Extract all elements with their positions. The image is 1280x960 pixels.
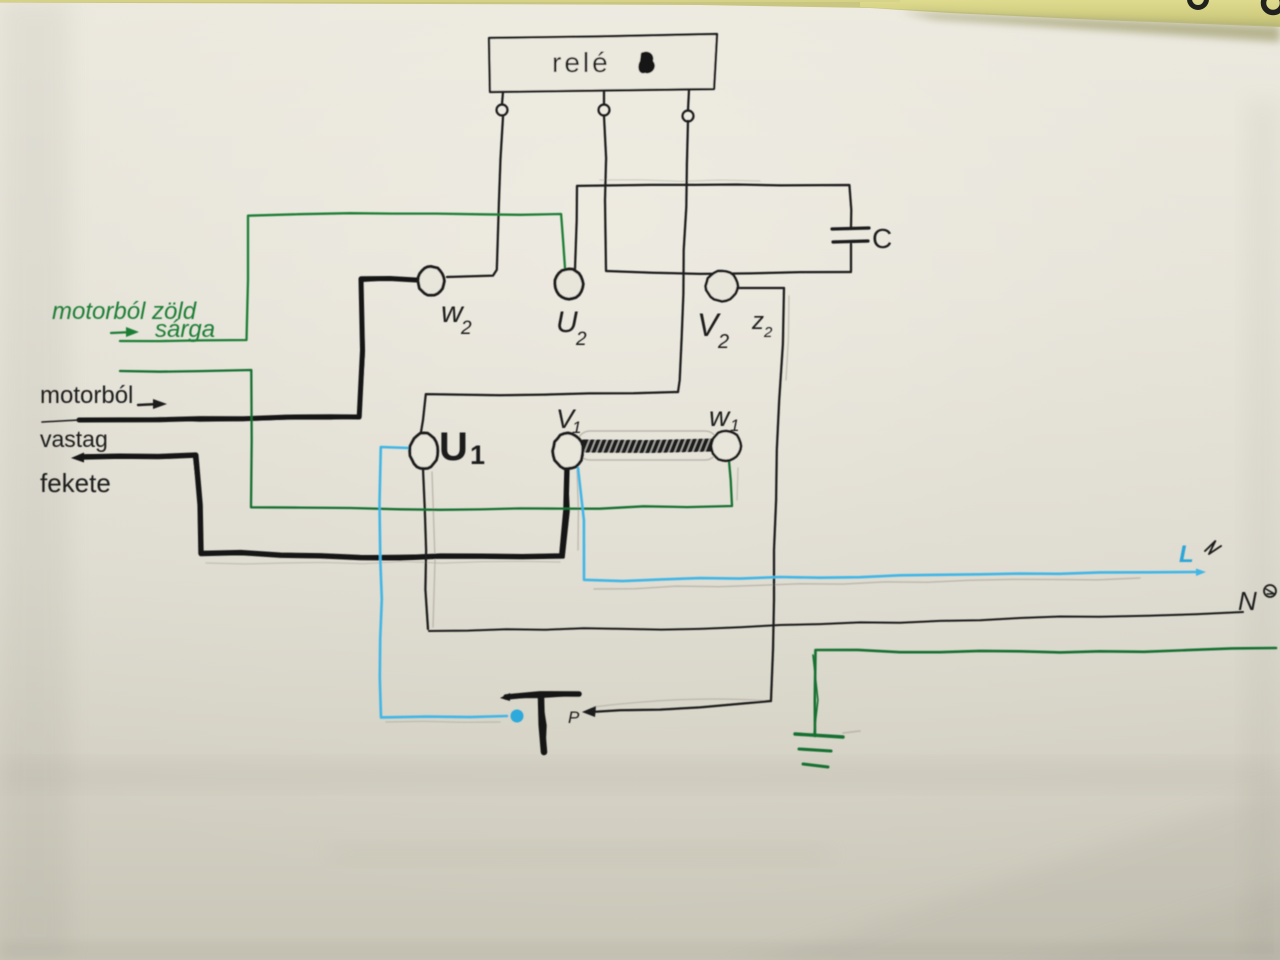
- pencil shadow along L wire: [594, 578, 1140, 589]
- T symbol bar left tip: [500, 693, 510, 701]
- wire U1 down: [423, 469, 428, 629]
- label V2: [697, 307, 729, 353]
- svg-text:L: L: [1179, 541, 1194, 568]
- svg-text:2: 2: [763, 324, 773, 341]
- ground symbol bar 3: [803, 764, 828, 767]
- svg-text:fekete: fekete: [40, 468, 111, 498]
- wire z2 down: [771, 288, 784, 700]
- relay box: [489, 34, 717, 92]
- svg-text:2: 2: [460, 318, 472, 339]
- pencil arc over P arrow wire: [593, 699, 768, 707]
- svg-text:1: 1: [470, 440, 485, 470]
- svg-text:P: P: [568, 708, 580, 727]
- pencil shadow along fekete wire: [206, 561, 560, 564]
- arrow motorbol: [138, 399, 167, 409]
- blue arrowhead at L: [1196, 569, 1206, 577]
- blue wire V1 to L: [578, 468, 1196, 581]
- label sarga: [155, 316, 215, 343]
- svg-text:1: 1: [572, 418, 581, 437]
- label U1 bold: [439, 425, 485, 470]
- relay label ink blob: [638, 52, 654, 74]
- label C: [872, 223, 892, 254]
- wire capacitor bottom lead: [850, 244, 852, 271]
- wire U2 to capacitor top rail: [575, 185, 851, 270]
- green wire zold to W1: [120, 370, 732, 510]
- T symbol bar at P: [506, 694, 579, 697]
- terminal U2: [555, 269, 583, 299]
- label motorbol: [40, 382, 133, 409]
- terminal W2: [418, 267, 444, 296]
- scribble near N: [1264, 585, 1276, 597]
- thick wire motorbol vastag to W2: [79, 279, 417, 421]
- svg-text:2: 2: [717, 331, 729, 353]
- label N: [1238, 586, 1257, 616]
- label motorbol zold: [52, 298, 197, 325]
- pencil shadow beside W1 green wire: [737, 468, 738, 500]
- label L: [1179, 541, 1194, 568]
- green earth wire: [813, 648, 1276, 736]
- svg-text:C: C: [872, 223, 892, 254]
- capacitor C plate top: [832, 228, 869, 229]
- svg-text:z: z: [751, 308, 764, 335]
- terminal V2: [706, 271, 738, 301]
- terminal V1: [553, 433, 583, 469]
- link bar V1-W1 hatched: [584, 439, 712, 454]
- pencil shadow beside V1 thick wire: [577, 470, 578, 550]
- label W2: [441, 296, 472, 339]
- svg-text:w: w: [709, 401, 731, 432]
- relay pin 3 stub: [683, 90, 694, 122]
- thin lead-in tail of vastag wire: [42, 420, 79, 422]
- wire V2 stub to z2: [739, 287, 784, 289]
- label rele: [552, 47, 611, 78]
- svg-text:U: U: [556, 306, 578, 339]
- arrowhead at P: [582, 706, 596, 717]
- label U2: [556, 306, 587, 350]
- relay pin 1 stub: [497, 92, 508, 116]
- pencil outline around V1-W1 link: [577, 431, 718, 460]
- pencil shadow along U1 down wire: [432, 472, 435, 627]
- wire N line: [429, 612, 1243, 631]
- wire z2 to P arrow: [591, 701, 771, 712]
- label W1: [709, 401, 739, 435]
- terminal U1: [410, 433, 438, 469]
- svg-text:sárga: sárga: [155, 316, 215, 343]
- svg-text:1: 1: [730, 416, 739, 435]
- wire relay pin2 down to capacitor rail: [604, 116, 606, 270]
- relay pin 2 stub: [599, 91, 610, 116]
- wire relay pin1 to terminal W2: [447, 117, 503, 277]
- svg-text:2: 2: [575, 329, 587, 350]
- T symbol stem at P: [541, 697, 545, 752]
- pencil tick beside ground: [843, 731, 860, 733]
- label Z2: [751, 308, 773, 341]
- svg-text:N: N: [1238, 586, 1257, 616]
- pencil shadow along blue P wire: [386, 721, 500, 722]
- ground symbol bar 2: [799, 749, 831, 751]
- thick wire fekete to V1: [80, 455, 568, 558]
- thick wire fekete pointed end: [71, 453, 84, 463]
- green wire sarga to U2: [120, 213, 565, 341]
- svg-text:relé: relé: [552, 47, 611, 78]
- label V1: [556, 404, 581, 437]
- svg-text:vastag: vastag: [40, 426, 108, 452]
- svg-text:motorból: motorból: [40, 382, 133, 409]
- pencil shadow above capacitor rail: [600, 180, 760, 182]
- label vastag: [40, 426, 108, 452]
- svg-text:U: U: [439, 425, 468, 469]
- blue wire U1 to P dot: [380, 447, 508, 717]
- wire relay pin3 down: [678, 121, 688, 392]
- pencil shadow along z2 wire: [786, 296, 789, 380]
- ground symbol bar 1: [795, 734, 843, 737]
- blue terminal dot at P: [511, 710, 524, 723]
- wire relay pin3 to terminal U1: [421, 392, 678, 432]
- label fekete: [40, 468, 111, 498]
- wire capacitor bottom rail to V2: [606, 271, 851, 274]
- capacitor C plate bottom: [833, 241, 868, 242]
- label P: [568, 708, 580, 727]
- scribble near L: [1205, 541, 1221, 554]
- terminal W1: [711, 431, 741, 461]
- green arrow sarga: [111, 327, 139, 337]
